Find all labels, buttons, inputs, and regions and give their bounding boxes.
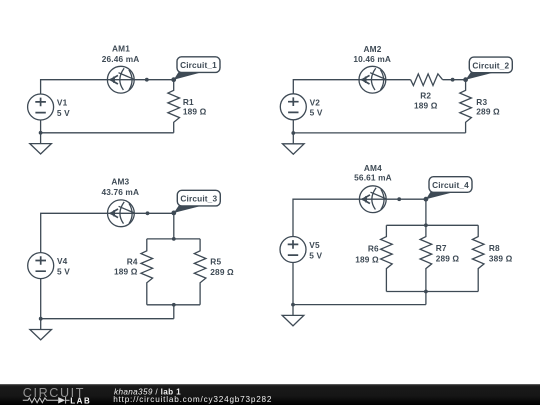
svg-text:289 Ω: 289 Ω: [210, 267, 234, 277]
wire: V5 bottom to ground node: [292, 263, 294, 305]
wire: bottom return R1 to ground node (circuit 1): [41, 132, 174, 134]
ground (circuit 1): [30, 133, 52, 154]
svg-text:R1: R1: [183, 97, 194, 107]
svg-text:V4: V4: [57, 256, 68, 266]
wire: V4 top to node Circuit_3 (through AM3): [41, 213, 174, 252]
wire: V2 top to R2 (through AM2): [293, 80, 410, 94]
ammeter AM4: [359, 186, 386, 213]
wire: bottom bus of R4-R5 pair: [147, 304, 200, 306]
resistor R8: [472, 225, 484, 291]
svg-text:56.61 mA: 56.61 mA: [354, 172, 392, 182]
svg-text:R2: R2: [420, 91, 431, 101]
resistor R3: [460, 80, 472, 133]
svg-text:43.76 mA: 43.76 mA: [101, 187, 139, 197]
wire: R2 to node Circuit_2: [443, 79, 466, 81]
svg-text:LAB: LAB: [70, 397, 91, 406]
ammeter AM3: [108, 200, 135, 227]
junction: wire joint right of AM1: [145, 78, 149, 82]
resistor R4: [141, 239, 153, 305]
wire: bottom return to ground node (circuit 4): [293, 304, 426, 306]
wire: top bus of R6-R7-R8 group: [386, 224, 478, 226]
node flag Circuit_2: [463, 57, 512, 82]
voltage source V1 5 V: [28, 94, 54, 120]
resistor R5: [194, 239, 206, 305]
svg-text:AM3: AM3: [111, 177, 129, 187]
node flag Circuit_4: [424, 177, 473, 202]
junction: top bus junction (circuit 3): [172, 237, 176, 241]
voltage source V2 5 V: [280, 94, 306, 120]
resistor R2: [411, 74, 443, 86]
junction: ground node circuit 2: [291, 131, 295, 135]
resistor R7: [420, 225, 432, 291]
svg-text:5 V: 5 V: [310, 108, 323, 118]
svg-text:Circuit_3: Circuit_3: [180, 194, 217, 204]
junction: bottom bus junction (circuit 4): [424, 290, 428, 294]
node flag Circuit_3: [171, 190, 220, 215]
node flag Circuit_1: [171, 57, 220, 82]
resistor R1: [168, 80, 180, 133]
junction: ground node circuit 1: [39, 131, 43, 135]
ground (circuit 3): [30, 319, 52, 340]
svg-text:5 V: 5 V: [57, 267, 70, 277]
svg-text:R8: R8: [489, 243, 500, 253]
svg-text:189 Ω: 189 Ω: [414, 101, 438, 111]
junction: ground node circuit 3: [39, 317, 43, 321]
wire: V1 bottom to ground node: [40, 120, 42, 133]
svg-text:V2: V2: [310, 97, 321, 107]
voltage source V4 5 V: [28, 253, 54, 279]
svg-text:5 V: 5 V: [57, 108, 70, 118]
wire: parallel pair down to bottom return: [173, 305, 175, 319]
wire: node Circuit_3 down to parallel pair: [173, 213, 175, 239]
svg-text:R6: R6: [368, 244, 379, 254]
ground (circuit 2): [283, 133, 305, 154]
svg-text:189 Ω: 189 Ω: [183, 107, 207, 117]
svg-text:R7: R7: [436, 243, 447, 253]
junction: bottom bus junction (circuit 3): [172, 303, 176, 307]
svg-text:http://circuitlab.com/cy324gb7: http://circuitlab.com/cy324gb73p282: [113, 395, 272, 404]
ammeter AM1: [107, 66, 134, 93]
svg-text:R4: R4: [127, 257, 138, 267]
svg-text:Circuit_1: Circuit_1: [180, 60, 217, 70]
junction: top bus junction (circuit 4): [424, 223, 428, 227]
svg-text:AM2: AM2: [364, 44, 382, 54]
junction: wire joint right of AM4: [397, 197, 401, 201]
wire: bottom return to ground node (circuit 3): [41, 318, 174, 320]
wire: V4 bottom to ground node: [40, 279, 42, 319]
wire: parallel group down to bottom return: [425, 292, 427, 305]
wire: bottom return R3 to ground node (circuit 2): [293, 132, 465, 134]
svg-text:Circuit_4: Circuit_4: [432, 180, 469, 190]
CircuitLab logo resistor-diode wire: [23, 397, 70, 404]
junction: ground node circuit 4: [291, 303, 295, 307]
svg-text:R5: R5: [210, 256, 221, 266]
wire: node Circuit_4 down to parallel group: [425, 199, 427, 225]
junction: wire joint right of R2: [451, 78, 455, 82]
svg-text:V5: V5: [309, 240, 320, 250]
svg-text:10.46 mA: 10.46 mA: [353, 54, 391, 64]
svg-text:R3: R3: [476, 97, 487, 107]
wire: V5 top to node Circuit_4 (through AM4): [293, 199, 426, 236]
wire: V1 top to node Circuit_1 (through AM1): [41, 80, 174, 94]
svg-text:Circuit_2: Circuit_2: [472, 60, 509, 70]
svg-text:189 Ω: 189 Ω: [355, 254, 379, 264]
wire: bottom bus of R6-R7-R8 group: [386, 291, 478, 293]
wire: V2 bottom to ground node: [292, 120, 294, 133]
svg-text:5 V: 5 V: [309, 250, 322, 260]
ammeter AM2: [359, 66, 386, 93]
ground (circuit 4): [282, 305, 304, 326]
svg-text:AM1: AM1: [112, 43, 130, 53]
junction: wire joint right of AM3: [146, 211, 150, 215]
wire: top bus of R4-R5 pair: [147, 238, 200, 240]
svg-text:289 Ω: 289 Ω: [476, 107, 500, 117]
svg-text:26.46 mA: 26.46 mA: [102, 54, 140, 64]
svg-text:389 Ω: 389 Ω: [489, 254, 513, 264]
resistor R6: [381, 225, 393, 291]
svg-text:189 Ω: 189 Ω: [114, 267, 138, 277]
svg-text:V1: V1: [57, 98, 68, 108]
svg-text:289 Ω: 289 Ω: [436, 254, 460, 264]
voltage source V5 5 V: [280, 237, 306, 263]
